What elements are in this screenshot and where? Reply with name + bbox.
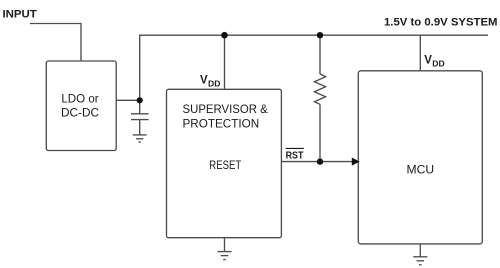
- MCU box U2: [358, 71, 482, 244]
- capacitor C1 plates: [131, 113, 149, 115]
- svg-text:MCU: MCU: [407, 162, 435, 176]
- arrowhead into MCU RST pin: [352, 158, 359, 165]
- svg-text:INPUT: INPUT: [3, 8, 37, 20]
- svg-text:SUPERVISOR &: SUPERVISOR &: [183, 102, 269, 116]
- wire capacitor to ground: [139, 120, 141, 135]
- wire top rail 1.5V system: [140, 35, 488, 114]
- svg-text:RESET: RESET: [209, 158, 241, 172]
- wire supervisor ground stem: [224, 238, 226, 252]
- wire RST net: [281, 161, 353, 163]
- wire LDO output to node A: [116, 99, 140, 101]
- supervisor box U1: [167, 89, 282, 237]
- wire input to LDO: [30, 24, 81, 62]
- wire rail to supervisor VDD: [224, 35, 226, 89]
- ground below MCU: [413, 257, 427, 265]
- label VDD supervisor: [200, 74, 220, 88]
- ground below capacitor: [133, 135, 147, 142]
- wire rail to MCU VDD: [419, 35, 421, 71]
- svg-text:V: V: [200, 74, 208, 86]
- svg-text:1.5V to 0.9V SYSTEM: 1.5V to 0.9V SYSTEM: [384, 16, 498, 28]
- label RST with overline: [286, 148, 304, 161]
- junction dot RST node: [317, 158, 323, 164]
- label VDD MCU: [424, 54, 444, 68]
- svg-text:DC-DC: DC-DC: [61, 106, 99, 120]
- LDO box: [46, 61, 116, 151]
- junction dot supervisor VDD tap: [221, 32, 228, 39]
- svg-text:RST: RST: [286, 150, 304, 161]
- svg-text:LDO or: LDO or: [61, 92, 98, 106]
- svg-text:DD: DD: [208, 78, 220, 88]
- ground below supervisor: [218, 252, 232, 260]
- label SUPERVISOR & PROTECTION: [183, 102, 269, 130]
- resistor R1 pull-up: [314, 35, 325, 161]
- svg-text:V: V: [424, 54, 432, 66]
- junction dot resistor top tap: [317, 32, 323, 38]
- label LDO or DC-DC: [61, 92, 99, 120]
- node A junction dot LDO output: [137, 97, 143, 103]
- svg-text:PROTECTION: PROTECTION: [183, 116, 260, 130]
- wire MCU ground stem: [419, 244, 421, 257]
- svg-text:DD: DD: [432, 58, 444, 68]
